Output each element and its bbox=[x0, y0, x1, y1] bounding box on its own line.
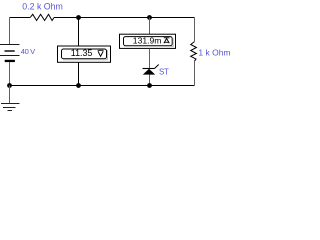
label ST bbox=[159, 67, 169, 76]
wire voltmeter bottom lead bbox=[78, 63, 80, 86]
wire zener bottom lead bbox=[149, 75, 151, 86]
wire ammeter bottom lead bbox=[149, 49, 151, 69]
svg-text:0.2 k Ohm: 0.2 k Ohm bbox=[22, 2, 63, 12]
wire ammeter top lead bbox=[149, 18, 151, 35]
zener diode ST bbox=[143, 65, 159, 75]
node ammeter top junction bbox=[147, 15, 152, 20]
wire ground stub bbox=[9, 86, 11, 104]
wire battery top lead bbox=[9, 18, 11, 45]
resistor 0.2k (zigzag) bbox=[30, 14, 54, 20]
resistor 1k (vertical zigzag) bbox=[191, 42, 197, 62]
node battery bottom junction bbox=[7, 83, 12, 88]
ammeter 131.9mA bbox=[120, 34, 176, 48]
battery 40V bbox=[0, 45, 20, 63]
svg-text:V: V bbox=[30, 47, 36, 56]
svg-text:11.35: 11.35 bbox=[71, 48, 93, 58]
wire bottom rail bbox=[10, 85, 195, 87]
wire right resistor top lead bbox=[193, 18, 195, 42]
ground bbox=[1, 104, 20, 111]
wire battery bottom lead bbox=[9, 62, 11, 85]
wire right resistor bottom lead bbox=[193, 61, 195, 85]
svg-text:40: 40 bbox=[21, 47, 29, 56]
label 40 V bbox=[21, 47, 36, 56]
node voltmeter top junction bbox=[76, 15, 81, 20]
voltmeter 11.35 V bbox=[58, 46, 111, 62]
wire top rail bbox=[10, 17, 195, 19]
node voltmeter bottom junction bbox=[76, 83, 81, 88]
svg-text:ST: ST bbox=[159, 67, 169, 76]
svg-text:1 k Ohm: 1 k Ohm bbox=[198, 48, 230, 58]
wire voltmeter top lead bbox=[78, 18, 80, 46]
label 0.2 k Ohm bbox=[22, 2, 63, 12]
svg-text:131.9m: 131.9m bbox=[133, 35, 162, 45]
node zener bottom junction bbox=[147, 83, 152, 88]
label 1 k Ohm bbox=[198, 48, 230, 58]
